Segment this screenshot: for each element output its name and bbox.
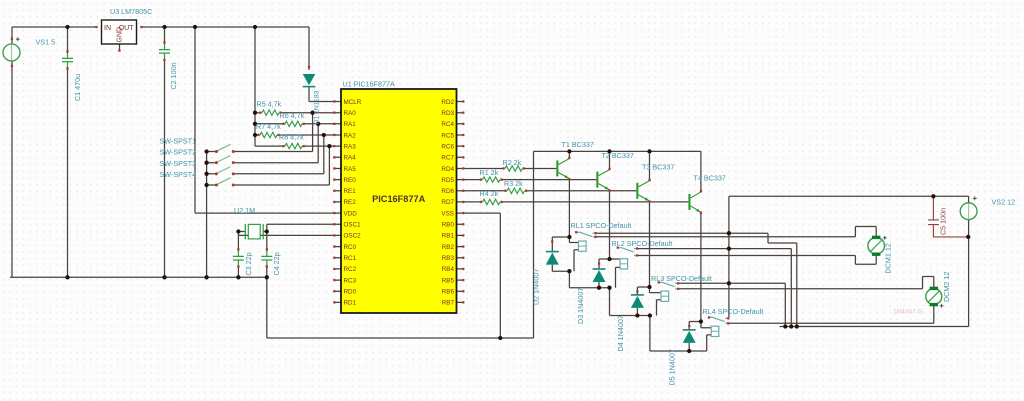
svg-text:RD0: RD0 [344,289,357,296]
svg-text:R3 2k: R3 2k [504,179,523,188]
svg-text:RB4: RB4 [442,266,455,273]
svg-text:SW-SPST1: SW-SPST1 [160,137,197,146]
svg-text:RD6: RD6 [441,188,454,195]
svg-text:RB1: RB1 [442,233,455,240]
svg-text:RD2: RD2 [441,99,454,106]
svg-text:RL4 SPCO-Default: RL4 SPCO-Default [703,307,764,316]
svg-text:U2 1M: U2 1M [234,206,255,215]
svg-text:VDD: VDD [344,210,358,217]
svg-text:C3 22p: C3 22p [244,252,253,275]
svg-text:DCM2 12: DCM2 12 [942,272,951,302]
svg-text:RC1: RC1 [344,255,357,262]
svg-text:U1 PIC16F877A: U1 PIC16F877A [343,80,396,89]
svg-text:T1 BC337: T1 BC337 [562,140,594,149]
svg-text:T3 BC337: T3 BC337 [642,162,674,171]
svg-text:RC6: RC6 [441,143,454,150]
svg-text:RA1: RA1 [344,121,357,128]
svg-text:GND: GND [117,27,124,43]
svg-text:D2 1N4007: D2 1N4007 [532,269,541,305]
svg-text:D3 1N4007: D3 1N4007 [576,288,585,324]
svg-text:RB3: RB3 [442,255,455,262]
svg-text:R6 4,7k: R6 4,7k [280,111,305,120]
svg-text:R4 2k: R4 2k [480,189,499,198]
svg-text:VS2 12: VS2 12 [992,197,1016,206]
svg-text:RD7: RD7 [441,199,454,206]
svg-text:D4 1N4007: D4 1N4007 [616,315,625,351]
svg-text:MCLR: MCLR [344,99,362,106]
svg-text:RL3 SPCO-Default: RL3 SPCO-Default [651,274,712,283]
svg-text:RC3: RC3 [344,277,357,284]
svg-text:RC4: RC4 [441,121,454,128]
svg-text:RB5: RB5 [442,277,455,284]
svg-text:RC5: RC5 [441,132,454,139]
svg-text:D5 1N4007: D5 1N4007 [668,349,677,385]
svg-text:C1 470u: C1 470u [73,74,82,101]
svg-text:R1 2k: R1 2k [480,168,499,177]
svg-text:RB6: RB6 [442,289,455,296]
svg-text:RD1: RD1 [344,300,357,307]
svg-text:RL1 SPCO-Default: RL1 SPCO-Default [571,221,632,230]
svg-text:D1 1N1183: D1 1N1183 [314,90,321,124]
svg-text:RD3: RD3 [441,110,454,117]
svg-text:IN: IN [104,25,111,32]
svg-text:RE2: RE2 [344,199,357,206]
svg-text:R5 4,7k: R5 4,7k [257,100,282,109]
svg-text:T4 BC337: T4 BC337 [694,174,726,183]
svg-text:R8 4,7k: R8 4,7k [279,133,304,142]
svg-text:RB7: RB7 [442,300,455,307]
svg-text:RA4: RA4 [344,155,357,162]
svg-text:RC7: RC7 [441,155,454,162]
svg-text:DCM1 12: DCM1 12 [883,243,892,273]
svg-text:RA5: RA5 [344,166,357,173]
svg-text:SW-SPST3: SW-SPST3 [160,159,197,168]
svg-text:1N4007 G: 1N4007 G [893,309,923,316]
svg-text:RC0: RC0 [344,244,357,251]
svg-text:R2 2k: R2 2k [503,158,522,167]
svg-text:RL2 SPCO-Default: RL2 SPCO-Default [612,239,673,248]
svg-text:C5 100n: C5 100n [938,208,947,235]
svg-text:PIC16F877A: PIC16F877A [372,194,425,204]
svg-text:RA0: RA0 [344,110,357,117]
svg-text:C4 22p: C4 22p [272,252,281,275]
svg-text:RB0: RB0 [442,222,455,229]
svg-text:OSC1: OSC1 [344,222,362,229]
svg-text:RD4: RD4 [441,166,454,173]
svg-text:U3 LM7805C: U3 LM7805C [110,7,152,16]
svg-text:RA2: RA2 [344,132,357,139]
svg-text:RB2: RB2 [442,244,455,251]
svg-text:RC2: RC2 [344,266,357,273]
svg-text:SW-SPST4: SW-SPST4 [160,170,197,179]
svg-text:VSS: VSS [441,210,454,217]
svg-text:SW-SPST2: SW-SPST2 [160,148,197,157]
svg-text:RD5: RD5 [441,177,454,184]
svg-text:RE1: RE1 [344,188,357,195]
svg-text:R7 4,7k: R7 4,7k [256,122,281,131]
svg-text:RA3: RA3 [344,143,357,150]
svg-text:VS1 5: VS1 5 [36,37,56,46]
svg-text:C2 100n: C2 100n [169,62,178,89]
svg-text:T2 BC337: T2 BC337 [602,151,634,160]
svg-text:RE0: RE0 [344,177,357,184]
svg-text:OSC2: OSC2 [344,233,362,240]
